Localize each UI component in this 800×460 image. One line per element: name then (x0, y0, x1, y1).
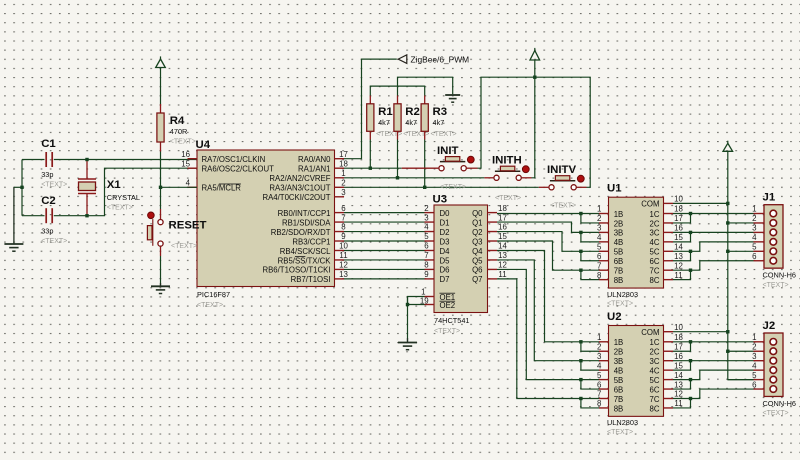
resistor R4 body (157, 113, 164, 142)
svg-text:4B: 4B (614, 366, 624, 375)
wire Q5 to U2 3B 4B (497, 260, 581, 361)
wire tie to U1 5B (581, 250, 599, 252)
svg-text:D5: D5 (440, 256, 451, 265)
svg-text:15: 15 (498, 232, 507, 241)
svg-text:3C: 3C (650, 229, 660, 238)
svg-text:2: 2 (424, 204, 428, 213)
svg-text:4k7: 4k7 (433, 118, 445, 127)
svg-text:6: 6 (424, 242, 429, 251)
wire RB1 to D1 (344, 221, 425, 223)
svg-text:12: 12 (674, 390, 683, 399)
U1 right pin 18 (664, 213, 674, 215)
svg-text:RA3/AN3/C1OUT: RA3/AN3/C1OUT (269, 184, 330, 193)
junction X1 top (85, 158, 88, 161)
svg-text:1: 1 (421, 288, 425, 297)
wire U2 to J pin1 (691, 341, 754, 343)
svg-text:4: 4 (186, 179, 191, 188)
crystal X1 body (79, 182, 96, 191)
svg-text:5B: 5B (614, 248, 624, 257)
wire U2 7C 8C tie (673, 399, 691, 408)
svg-text:COM: COM (641, 200, 659, 209)
svg-text:U3: U3 (433, 194, 448, 206)
wire VCC to U2 J pin2 (728, 350, 754, 352)
wire RB2 to D2 (344, 231, 425, 233)
svg-text:6B: 6B (614, 385, 624, 394)
switch INIT left contact (439, 166, 444, 171)
J2 pin 5 (754, 379, 765, 381)
junction Q3 tie (579, 269, 582, 272)
svg-text:Q1: Q1 (472, 218, 482, 227)
svg-text:17: 17 (674, 342, 683, 351)
svg-text:17: 17 (674, 214, 683, 223)
U3 right pin 13 (488, 259, 498, 261)
svg-text:<TEXT>: <TEXT> (763, 410, 789, 417)
svg-text:2: 2 (752, 342, 756, 351)
switch RESET bottom pin (160, 246, 162, 256)
svg-text:7: 7 (341, 213, 345, 222)
wire U2 to J pin4 (691, 370, 754, 379)
svg-text:17: 17 (339, 150, 348, 159)
svg-text:33p: 33p (41, 227, 53, 236)
svg-text:74HCT541: 74HCT541 (434, 316, 470, 325)
junction Q2 tie (579, 250, 582, 253)
svg-text:CONN-H6: CONN-H6 (763, 270, 796, 279)
J1 pin 4 (754, 241, 765, 243)
wire RB7 to D7 (344, 278, 425, 280)
U4 right pin 10 (335, 249, 345, 251)
U3 left pin 8 (425, 268, 435, 270)
svg-text:13: 13 (339, 270, 348, 279)
U1 left pin 6 (599, 260, 609, 262)
svg-text:8B: 8B (614, 276, 624, 285)
wire Q1 to U1 3B 4B (497, 222, 581, 232)
U4 right pin 6 (335, 212, 345, 214)
svg-text:<TEXT>: <TEXT> (171, 243, 197, 250)
svg-text:2B: 2B (614, 219, 624, 228)
crystal X1 top lead (78, 160, 96, 180)
svg-text:8B: 8B (614, 404, 624, 413)
junction Q4 tie (579, 340, 582, 343)
wire VCC to U2 J pin5 (728, 379, 754, 381)
connector J2 body (764, 333, 783, 396)
svg-text:J1: J1 (763, 192, 776, 204)
svg-text:470R: 470R (170, 127, 188, 136)
svg-text:16: 16 (181, 150, 190, 159)
wire C2 to pin15 riser (54, 168, 197, 216)
svg-text:D7: D7 (440, 275, 450, 284)
switch INITV right contact (571, 185, 576, 190)
wire R4 to MCLR node (160, 152, 162, 188)
J1 pin 1 socket (770, 210, 777, 217)
U3 left pin 4 (425, 231, 435, 233)
wire RB4 to D4 (344, 249, 425, 251)
svg-text:RB0/INT/CCP1: RB0/INT/CCP1 (278, 209, 331, 218)
J1 pin 3 socket (770, 229, 777, 236)
svg-text:2C: 2C (650, 219, 660, 228)
wire VCC to R4 (160, 68, 162, 105)
wire U2 5C 6C tie (673, 380, 691, 389)
svg-text:8: 8 (597, 399, 602, 408)
svg-text:1: 1 (752, 205, 756, 214)
junction U2 3C (689, 359, 692, 362)
U1 left pin 3 (599, 231, 609, 233)
svg-text:CRYSTAL: CRYSTAL (107, 193, 140, 202)
svg-text:18: 18 (674, 205, 683, 214)
svg-text:2B: 2B (614, 348, 624, 357)
svg-text:6: 6 (752, 380, 757, 389)
crystal X1 bottom lead (78, 194, 96, 216)
junction VCC U1 J pin2 (726, 221, 729, 224)
switch INITH left contact (494, 175, 499, 180)
switch INITV red dot (577, 175, 584, 182)
svg-text:16: 16 (498, 223, 507, 232)
wire U1 to J pin3 (691, 231, 754, 233)
wire Q3 to U1 7B 8B (497, 241, 581, 270)
junction left vertical (20, 186, 23, 189)
svg-text:RB3/CCP1: RB3/CCP1 (292, 237, 330, 246)
svg-text:<TEXT>: <TEXT> (434, 328, 460, 335)
svg-text:INIT: INIT (437, 145, 459, 157)
U4 left pin 4 (188, 186, 198, 188)
svg-text:7B: 7B (614, 267, 624, 276)
connector J1 body (764, 205, 783, 268)
svg-text:2: 2 (597, 214, 601, 223)
svg-text:RB2/SDO/RX/DT: RB2/SDO/RX/DT (271, 228, 331, 237)
switch RESET upper contact (158, 220, 163, 225)
U2 left pin 7 (599, 398, 609, 400)
svg-text:7: 7 (597, 390, 601, 399)
resistor R3 bottom lead (424, 131, 426, 139)
U3 right pin 17 (488, 221, 498, 223)
wire left vertical C1-C2 (21, 160, 23, 216)
U3 left pin 5 (425, 240, 435, 242)
svg-text:CONN-H6: CONN-H6 (763, 399, 796, 408)
resistor R1 top lead (369, 96, 371, 104)
svg-text:4C: 4C (650, 238, 660, 247)
resistor R2 top lead (397, 96, 399, 104)
wire R2 bottom to pin1 net (397, 140, 399, 178)
svg-text:10: 10 (674, 323, 683, 332)
svg-text:15: 15 (181, 159, 190, 168)
U1 left pin 5 (599, 250, 609, 252)
U3 right pin 18 (488, 212, 498, 214)
svg-text:18: 18 (339, 159, 348, 168)
wire tie to U2 3B (581, 360, 599, 362)
U3 left pin 1 (425, 296, 435, 298)
wire VCC rail vertical (728, 151, 754, 379)
svg-text:RA5/MCLR: RA5/MCLR (202, 184, 242, 193)
svg-text:16: 16 (674, 224, 683, 233)
svg-text:7C: 7C (650, 395, 660, 404)
U3 left pin 3 (425, 221, 435, 223)
wire C1 top net (22, 159, 45, 161)
svg-text:1B: 1B (614, 210, 624, 219)
resistor R3 body (421, 104, 428, 132)
svg-text:<TEXT>: <TEXT> (170, 139, 196, 146)
svg-text:15: 15 (674, 361, 683, 370)
svg-text:5: 5 (597, 243, 602, 252)
U3 left pin 6 (425, 249, 435, 251)
svg-text:RA0/AN0: RA0/AN0 (298, 155, 331, 164)
U2 right pin 16 (664, 360, 674, 362)
U3 right pin 15 (488, 240, 498, 242)
U1 right pin 12 (664, 269, 674, 271)
U3 right pin 11 (488, 278, 498, 280)
svg-text:8C: 8C (650, 276, 660, 285)
switch INITV bar (550, 180, 575, 182)
U2 left pin 3 (599, 360, 609, 362)
capacitor C2 (46, 208, 52, 223)
wire U2 COM to VCC rail (673, 331, 728, 333)
svg-text:2C: 2C (650, 348, 660, 357)
wire tie to U1 3B (581, 231, 599, 233)
power arrow VCC rail (727, 141, 729, 144)
svg-text:13: 13 (674, 252, 683, 261)
svg-text:13: 13 (498, 251, 507, 260)
wire pin2 to INITV (344, 186, 539, 188)
wire INIT right to INITV right link (478, 77, 591, 187)
U4 right pin 12 (335, 268, 345, 270)
svg-text:18: 18 (498, 204, 507, 213)
svg-text:X1: X1 (107, 179, 122, 191)
ground R2 net (445, 95, 460, 102)
svg-text:3: 3 (341, 188, 346, 197)
U1 left pin 7 (599, 269, 609, 271)
U4 right pin 11 (335, 259, 345, 261)
wire RB0 to D0 (344, 212, 425, 214)
svg-text:8: 8 (341, 223, 346, 232)
IC U1 body (609, 197, 664, 288)
junction U2 7C (689, 397, 692, 400)
wire C2 left net (22, 215, 45, 217)
wire pin18 green segment (344, 167, 402, 169)
junction INITH VCC link (533, 76, 536, 79)
wire tie to U1 1B (581, 213, 599, 215)
U2 right pin 18 (664, 341, 674, 343)
svg-text:Q5: Q5 (472, 256, 483, 265)
U3 right pin 12 (488, 268, 498, 270)
U2 right pin 15 (664, 369, 674, 371)
svg-text:3: 3 (424, 213, 429, 222)
switch INITH red dot (522, 166, 529, 173)
svg-text:C2: C2 (41, 195, 56, 207)
U1 right pin 11 (664, 279, 674, 281)
svg-text:COM: COM (641, 328, 659, 337)
wire tie to U2 7B (581, 398, 599, 400)
U1 right pin 13 (664, 260, 674, 262)
svg-text:13: 13 (674, 380, 683, 389)
svg-text:10: 10 (339, 242, 348, 251)
switch INITV left pin (539, 186, 549, 188)
J2 pin 6 (754, 388, 765, 390)
svg-text:1: 1 (752, 333, 756, 342)
junction U1 1C (689, 212, 692, 215)
svg-text:RB6/T1OSO/T1CKI: RB6/T1OSO/T1CKI (262, 266, 330, 275)
terminal ZigBee/6_PWM symbol (398, 55, 407, 64)
svg-text:Q6: Q6 (472, 266, 482, 275)
svg-text:12: 12 (674, 261, 683, 270)
svg-text:10: 10 (674, 195, 683, 204)
wire RB6 to D6 (344, 268, 425, 270)
switch INITH right pin (522, 177, 532, 179)
svg-text:6: 6 (341, 204, 346, 213)
J2 pin 1 (754, 341, 765, 343)
svg-text:4: 4 (752, 361, 757, 370)
U2 left pin 1 (599, 341, 609, 343)
U4 right pin 17 (335, 158, 345, 160)
J2 pin 1 socket (770, 339, 777, 346)
svg-text:6: 6 (752, 252, 757, 261)
wire U1 5C 6C tie (673, 251, 691, 260)
svg-text:OE2: OE2 (440, 301, 456, 310)
J1 pin 1 (754, 213, 765, 215)
svg-text:<TEXT>: <TEXT> (197, 302, 223, 309)
switch INITH bar (495, 170, 520, 172)
svg-text:3: 3 (752, 352, 757, 361)
wire U1 1C 2C tie (673, 214, 691, 223)
switch RESET actuator (147, 219, 152, 246)
svg-text:3C: 3C (650, 357, 660, 366)
U2 left pin 2 (599, 350, 609, 352)
switch INIT red dot (467, 156, 474, 163)
junction U2 5C (689, 378, 692, 381)
switch RESET top pin (160, 209, 162, 219)
ground reset (160, 283, 162, 286)
U2 left pin 4 (599, 369, 609, 371)
svg-text:1B: 1B (614, 338, 624, 347)
junction U1 COM (726, 202, 729, 205)
svg-text:1: 1 (597, 333, 601, 342)
svg-text:11: 11 (498, 270, 506, 279)
resistor R1 body (367, 104, 374, 132)
wire Q0 to U1 1B 2B (497, 213, 581, 215)
wire INITH right to VCC (532, 60, 535, 178)
U3 left pin 19 (425, 304, 435, 306)
wire R3 bottom to pin2 net (424, 140, 426, 188)
svg-text:12: 12 (339, 261, 348, 270)
svg-text:D0: D0 (440, 209, 451, 218)
junction Q1 tie (579, 231, 582, 234)
wire Q2 to U1 5B 6B (497, 232, 581, 252)
wire MCLR to U4 pin 4 (161, 186, 198, 188)
U4 right pin 9 (335, 240, 345, 242)
svg-text:INITV: INITV (547, 164, 577, 176)
wire tie to U2 1B (581, 341, 599, 343)
switch INIT cap (445, 157, 459, 162)
resistor R2 body (394, 104, 401, 132)
svg-text:RA2/AN2/CVREF: RA2/AN2/CVREF (269, 174, 330, 183)
switch RESET lower contact (158, 241, 163, 246)
svg-text:Q3: Q3 (472, 237, 482, 246)
wire C1 to U4 pin 16 (54, 159, 197, 161)
U2 left pin 6 (599, 388, 609, 390)
svg-text:3B: 3B (614, 357, 624, 366)
wire U1 3C 4C tie (673, 232, 691, 241)
svg-text:4k7: 4k7 (405, 118, 417, 127)
junction Q6 tie (579, 378, 582, 381)
wire tie to U1 7B (581, 269, 599, 271)
U2 right pin 12 (664, 398, 674, 400)
svg-text:7: 7 (597, 261, 601, 270)
svg-text:U1: U1 (607, 183, 622, 195)
svg-text:RB4/SCK/SCL: RB4/SCK/SCL (280, 247, 331, 256)
ground OE net (407, 338, 409, 343)
J1 pin 2 (754, 222, 765, 224)
U3 right pin 16 (488, 231, 498, 233)
wire pin17 to terminal riser (344, 59, 397, 159)
wire U2 to J pin3 (691, 360, 754, 362)
switch INITH left pin (484, 177, 493, 179)
J1 pin 2 socket (770, 220, 777, 227)
J2 pin 4 (754, 369, 765, 371)
resistor R2 bottom lead (397, 131, 399, 139)
svg-text:RA4/T0CKI/C2OUT: RA4/T0CKI/C2OUT (262, 193, 330, 202)
U2 right pin 13 (664, 388, 674, 390)
U1 right pin 17 (664, 222, 674, 224)
svg-text:1C: 1C (650, 210, 660, 219)
svg-text:5: 5 (424, 232, 429, 241)
U4 right pin 2 (335, 186, 345, 188)
U1 right pin 15 (664, 241, 674, 243)
svg-text:14: 14 (674, 371, 683, 380)
U2 right pin 17 (664, 350, 674, 352)
svg-text:6C: 6C (650, 385, 660, 394)
J1 pin 6 socket (770, 257, 777, 264)
switch INIT right pin (467, 167, 478, 169)
svg-text:5: 5 (597, 371, 602, 380)
IC U2 body (609, 326, 664, 417)
wire RB5 to D5 (344, 259, 425, 261)
svg-text:8: 8 (424, 261, 429, 270)
U2 right pin 11 (664, 407, 674, 409)
U1 right pin 16 (664, 231, 674, 233)
svg-text:3: 3 (597, 352, 602, 361)
wire U1 7C 8C tie (673, 270, 691, 279)
svg-text:<TEXT>: <TEXT> (41, 238, 67, 245)
svg-text:Q4: Q4 (472, 247, 483, 256)
junction Q5 tie (579, 359, 582, 362)
svg-text:16: 16 (674, 352, 683, 361)
svg-text:RA7/OSC1/CLKIN: RA7/OSC1/CLKIN (202, 155, 266, 164)
J2 pin 2 (754, 350, 765, 352)
svg-text:14: 14 (498, 242, 507, 251)
svg-text:2: 2 (752, 214, 756, 223)
switch INIT right contact (461, 166, 466, 171)
svg-text:15: 15 (674, 233, 683, 242)
junction X1 bottom (85, 214, 88, 217)
svg-text:3: 3 (597, 224, 602, 233)
wire MCLR node to reset switch (160, 187, 162, 209)
U3 left pin 7 (425, 259, 435, 261)
IC U3 body (434, 205, 488, 313)
J2 pin 5 socket (770, 376, 777, 383)
svg-text:5: 5 (752, 243, 757, 252)
svg-text:D4: D4 (440, 247, 451, 256)
U4 right pin 18 (335, 167, 345, 169)
switch INITV right pin (577, 186, 587, 188)
svg-text:5B: 5B (614, 376, 624, 385)
svg-text:C1: C1 (41, 138, 56, 150)
svg-text:7: 7 (424, 251, 428, 260)
J2 pin 3 socket (770, 357, 777, 364)
U4 right pin 7 (335, 221, 345, 223)
svg-text:2: 2 (341, 179, 345, 188)
U1 right pin 10 COM (664, 202, 674, 204)
U4 right pin 13 (335, 278, 345, 280)
wire Q7 to U2 7B 8B (497, 279, 581, 399)
junction VCC U2 J pin2 (726, 350, 729, 353)
svg-text:4: 4 (424, 223, 429, 232)
